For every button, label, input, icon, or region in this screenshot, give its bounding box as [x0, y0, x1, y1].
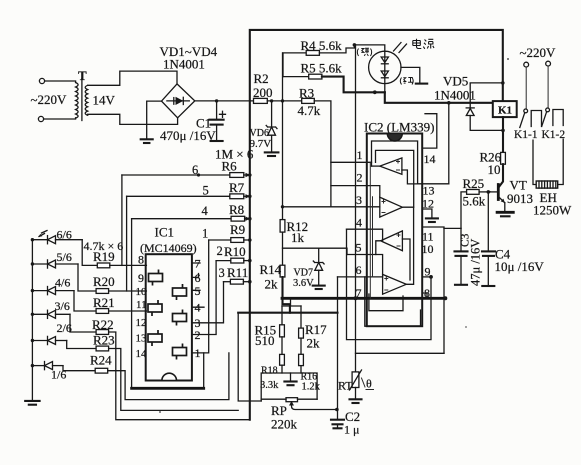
wire comparator3 base feedback	[402, 239, 410, 280]
wire bottom terminal to transformer primary	[44, 118, 76, 119]
svg-text:5: 5	[203, 184, 209, 198]
resistor R24	[95, 368, 108, 373]
wire 5/6 to R20	[78, 264, 96, 291]
wire C2 column from pin6	[337, 277, 339, 419]
svg-text:R11: R11	[227, 265, 248, 280]
wire 3/6 to R22	[70, 314, 96, 332]
wire R26 to VT collector	[499, 164, 503, 187]
potentiometer RP 220k	[286, 398, 298, 402]
resistor R3	[302, 98, 315, 103]
svg-text:2: 2	[357, 171, 363, 185]
svg-text:5/6: 5/6	[57, 250, 72, 264]
resistor R22	[96, 330, 109, 335]
transformer T core	[81, 79, 83, 121]
comparator U2B (points right)	[380, 197, 403, 217]
diode level 2/6	[31, 339, 34, 342]
svg-text:3.6V: 3.6V	[293, 278, 314, 289]
label power (dianyuan)	[413, 39, 434, 49]
wire 1/6 to R24	[63, 366, 95, 371]
LED inner symbols	[384, 51, 386, 92]
resistor R17 2k (vertical)	[300, 306, 302, 328]
wire pin12 ground	[422, 209, 432, 218]
svg-text:R6: R6	[222, 159, 238, 174]
svg-text:3: 3	[356, 193, 362, 207]
svg-text:4/6: 4/6	[55, 276, 70, 290]
wire R23 wrap loop	[109, 349, 239, 411]
svg-text:5: 5	[195, 284, 201, 298]
wire 2/6 to R23	[67, 341, 96, 349]
wire K1 to R26	[502, 117, 504, 152]
wire 6/6 to R19	[82, 240, 97, 266]
svg-text:K1-2: K1-2	[542, 129, 566, 141]
svg-text:R18: R18	[261, 366, 278, 377]
resistor R18 3.3k (vertical)	[281, 337, 283, 355]
svg-text:R10: R10	[224, 244, 246, 259]
wire R12 column	[282, 53, 284, 220]
node mains terminal right	[546, 61, 551, 66]
svg-text:2k: 2k	[265, 277, 279, 292]
wire big supply box top and sides	[250, 30, 503, 420]
wire R5 branch	[283, 76, 309, 78]
wire y313 horizontal	[238, 312, 337, 314]
resistor R20	[96, 289, 109, 294]
node junction pin7 RT	[354, 296, 358, 300]
diode level 5/6	[31, 262, 34, 265]
svg-text:2: 2	[195, 328, 201, 342]
node mains terminal left	[524, 62, 529, 67]
svg-text:R21: R21	[93, 295, 115, 310]
svg-text:3: 3	[219, 266, 225, 280]
wire row 4 with resistor R8	[132, 218, 232, 220]
node junction VD6	[270, 99, 273, 102]
ground at bridge	[141, 138, 153, 140]
wire secondary bottom to bridge	[88, 114, 178, 124]
svg-text:R7: R7	[229, 180, 245, 195]
ground at VT emitter	[497, 211, 513, 214]
op-amp IC2 LM339 box	[367, 134, 422, 327]
wire loop bottom outer	[356, 352, 445, 354]
wire R25 to VT base	[479, 191, 490, 193]
resistor R15 510 (vertical)	[281, 306, 283, 325]
wire top terminal to transformer primary	[45, 81, 76, 83]
svg-text:R14: R14	[260, 262, 282, 277]
node junction RP wiper C2	[335, 408, 339, 412]
wire R4 branch	[283, 53, 306, 77]
svg-text:14: 14	[424, 152, 436, 166]
wire R12 to VD7 junction	[282, 232, 284, 265]
wire comparator1 output	[372, 165, 380, 167]
resistor R23	[96, 346, 109, 351]
capacitor C1	[216, 101, 218, 119]
svg-text:T: T	[78, 68, 87, 83]
wire vertical from LED junction down to pin7 wire	[355, 45, 357, 298]
resistor R16 1.2k (vertical)	[300, 338, 302, 354]
wire IC2 pin2	[331, 186, 380, 198]
IC1 right pin stubs	[193, 263, 204, 307]
svg-text:10: 10	[136, 286, 148, 298]
svg-text:1: 1	[202, 227, 208, 241]
resistor R2	[254, 98, 268, 103]
wire VD7 branch	[283, 248, 348, 254]
capacitor C4 10u/16V	[487, 192, 489, 251]
svg-text:14: 14	[136, 348, 148, 360]
svg-text:11: 11	[136, 299, 147, 311]
svg-text:R19: R19	[93, 249, 115, 264]
resistor R12 1k (vertical)	[280, 220, 285, 233]
switch K1-2	[546, 108, 550, 112]
svg-text:R4 5.6k: R4 5.6k	[301, 38, 343, 53]
wire comparator3 output	[376, 241, 381, 255]
svg-text:6/6: 6/6	[57, 228, 72, 242]
svg-text:R9: R9	[230, 222, 245, 237]
resistor R4 5.6k	[306, 51, 319, 56]
svg-text:220k: 220k	[271, 417, 298, 432]
svg-text:13: 13	[136, 333, 148, 345]
bridge inner diode	[167, 100, 189, 102]
wire R3 right corner down	[314, 101, 331, 207]
wire pin9 stub	[422, 276, 431, 278]
node ~220V input terminal bottom	[38, 116, 43, 121]
wire 313 column down to RP	[238, 313, 261, 401]
wire LED right side	[401, 67, 420, 83]
wire IC2 top-right hook	[422, 114, 437, 148]
wire R10 drop to IC1 pin2	[193, 261, 217, 335]
IC1 MC14069 box	[146, 254, 192, 380]
svg-text:2/6: 2/6	[57, 321, 72, 335]
resistor R25 5.6k	[461, 192, 467, 229]
wire K1-2 to EH	[558, 139, 564, 184]
svg-text:R23: R23	[93, 333, 115, 348]
svg-text:5.6k: 5.6k	[463, 194, 486, 209]
svg-text:θ: θ	[366, 377, 372, 391]
node junction VD5 bottom	[501, 129, 505, 133]
wire IC2 inner left rail	[369, 162, 371, 298]
wire comparator2 output down	[402, 207, 413, 284]
svg-text:~220V: ~220V	[520, 45, 557, 60]
svg-text:IC2 (LM339): IC2 (LM339)	[364, 120, 434, 135]
comparator U2C (points left)	[381, 231, 403, 251]
svg-text:1k: 1k	[291, 230, 305, 245]
label power (dianyuan) rays	[394, 43, 407, 53]
diode level 3/6	[31, 313, 34, 316]
svg-text:6: 6	[356, 263, 362, 277]
wire R24 wrap loop	[108, 353, 229, 400]
svg-text:6: 6	[192, 163, 198, 177]
svg-text:R25: R25	[463, 176, 485, 191]
wire secondary top to bridge	[88, 71, 177, 85]
diode level 6/6	[31, 238, 34, 241]
ground between R18 R16	[290, 373, 292, 381]
comparator U2D (points right)	[383, 274, 407, 294]
wire IC2 pin6	[338, 276, 383, 278]
svg-text:R5 5.6k: R5 5.6k	[301, 61, 343, 76]
wire loop pin4 around bottom	[347, 229, 432, 339]
wire comparator4 under-loop	[369, 294, 403, 311]
wire IC2 pin4	[347, 229, 383, 241]
node junction C4 column	[487, 190, 491, 194]
svg-text:R22: R22	[92, 317, 114, 332]
svg-text:47μ /16V: 47μ /16V	[469, 239, 483, 286]
wire R5 to LED bottom	[322, 77, 385, 93]
bridge rectifier VD1~VD4 diamond	[162, 84, 195, 118]
svg-text:R2: R2	[254, 71, 269, 86]
wire row 1 with resistor R9	[209, 239, 231, 241]
svg-text:VD7: VD7	[294, 268, 313, 279]
transformer T secondary winding	[85, 85, 88, 115]
transformer T primary winding	[76, 83, 79, 119]
svg-text:9013: 9013	[507, 191, 533, 206]
svg-text:10μ /16V: 10μ /16V	[495, 259, 545, 274]
transistor VT 9013	[497, 185, 500, 200]
label (green)	[357, 48, 371, 56]
svg-text:1: 1	[195, 346, 201, 360]
wire bridge right vertex main rail	[195, 100, 254, 102]
zener VD6 9.7V	[271, 101, 273, 127]
node junction pin7 right	[443, 296, 447, 300]
wire row 2 with resistor R10	[216, 260, 231, 262]
svg-text:10: 10	[488, 162, 501, 177]
comparator U2A (points left)	[380, 158, 402, 174]
ground at LED column	[25, 400, 39, 402]
svg-text:1 μ: 1 μ	[344, 423, 359, 437]
svg-text:14V: 14V	[93, 93, 116, 108]
wire R15 R17 top tie	[282, 298, 301, 306]
zener VD7 3.6V	[318, 248, 320, 262]
diode level 4/6	[31, 289, 34, 292]
wire pin13 stub	[418, 183, 449, 185]
wire R2 to R3	[267, 100, 301, 102]
wire pin11 to R25 column	[422, 227, 444, 353]
wire IC2 pin7 main horizontal	[282, 297, 445, 300]
svg-text:4: 4	[202, 204, 209, 218]
capacitor C2 1u	[331, 419, 344, 421]
svg-text:K1: K1	[498, 105, 512, 117]
wire R11 drop to IC1 pin3	[193, 282, 224, 323]
svg-text:1/6: 1/6	[51, 368, 66, 382]
wire R18 R16 bottoms tie	[261, 365, 317, 401]
svg-text:1.2k: 1.2k	[302, 382, 321, 393]
svg-text:1: 1	[357, 148, 363, 162]
svg-text:5: 5	[356, 241, 362, 255]
wire row 5 with resistor R7	[127, 195, 230, 197]
svg-text:1250W: 1250W	[533, 203, 572, 218]
node junction pin9	[429, 275, 433, 279]
svg-text:2k: 2k	[307, 336, 321, 351]
svg-text:(MC14069): (MC14069)	[140, 241, 197, 255]
label (red)	[400, 78, 413, 85]
svg-text:4: 4	[356, 216, 362, 230]
svg-text:R20: R20	[93, 274, 115, 289]
wire LED bottom to K1	[385, 92, 493, 103]
node junction R5 LED	[373, 90, 377, 94]
svg-text:3/6: 3/6	[55, 299, 70, 313]
svg-text:R3: R3	[299, 86, 314, 101]
svg-text:VD5: VD5	[443, 74, 468, 89]
svg-text:13: 13	[423, 184, 435, 198]
wire wrap column W5	[126, 196, 128, 291]
diode level 1/6	[31, 364, 34, 367]
thermistor RT	[355, 298, 357, 372]
wire 4/6 to R21	[74, 291, 96, 311]
svg-text:3.3k: 3.3k	[260, 380, 279, 391]
svg-text:1N4001: 1N4001	[163, 57, 205, 72]
svg-text:12: 12	[136, 317, 147, 329]
svg-text:R24: R24	[90, 353, 112, 368]
ground at IC2 pin12	[426, 217, 438, 219]
svg-text:9: 9	[138, 271, 144, 285]
svg-text:200: 200	[253, 85, 273, 100]
svg-text:510: 510	[255, 333, 275, 348]
wire R22 wrap loop	[109, 332, 250, 420]
wire bridge left vertex to ground	[147, 101, 162, 139]
heater EH 1250W	[536, 181, 558, 188]
wire R9 drop to IC1 pin1	[193, 240, 209, 353]
wire IC2 interior loop over top	[372, 141, 418, 184]
node junction VD5 top	[501, 81, 505, 85]
svg-text:8: 8	[138, 253, 144, 267]
wire IC2 pin1	[331, 161, 372, 163]
svg-text:IC1: IC1	[155, 225, 175, 240]
wire mains drops	[525, 67, 527, 109]
resistor R21	[96, 309, 109, 314]
node ~220V input terminal top	[39, 78, 44, 83]
wire jog to C3 column	[444, 227, 461, 229]
node junction R4 LED	[353, 43, 357, 47]
svg-text:470μ /16V: 470μ /16V	[160, 128, 216, 143]
wire R14 elbow to wire313	[283, 277, 290, 313]
wire wrap column W6	[121, 175, 123, 265]
wire loop pin5 around bottom	[365, 277, 421, 326]
svg-text:4.7k: 4.7k	[298, 103, 321, 118]
node junction pin3 branch	[281, 205, 284, 208]
inverter glyphs inside IC1	[148, 270, 187, 360]
ground at C1	[211, 140, 223, 142]
resistor R14 2k (vertical)	[280, 265, 285, 277]
node junction R12 column	[281, 99, 284, 102]
svg-text:R8: R8	[229, 202, 244, 217]
wire wrap column W4 with bottom	[131, 219, 133, 389]
wire pin8 stub	[422, 293, 427, 298]
capacitor C3 47u/16V	[460, 228, 462, 251]
svg-text:K1-1: K1-1	[514, 129, 538, 141]
relay K1	[493, 101, 517, 117]
resistor R19	[97, 263, 110, 268]
node junction K1 wire	[447, 101, 451, 105]
switch K1-1	[524, 109, 528, 113]
stray scan dots	[507, 58, 509, 60]
wire IC2 pin5	[347, 255, 383, 275]
wire row 6 with resistor R6	[122, 174, 230, 176]
svg-text:~220V: ~220V	[31, 92, 68, 107]
wire K1-1 to EH	[533, 140, 536, 184]
resistor R5 5.6k	[309, 74, 322, 79]
wire IC2 pin3	[283, 206, 380, 208]
svg-text:RT: RT	[338, 379, 353, 393]
LED ray arrows at 6/6	[39, 231, 47, 237]
resistor R26 (vertical)	[501, 152, 506, 164]
svg-text:2: 2	[217, 244, 223, 258]
LED level column common wire	[31, 240, 33, 401]
wire row 3 with resistor R11	[224, 281, 231, 283]
wire R4 to LED junction	[319, 45, 384, 53]
node junction C1	[215, 99, 218, 102]
svg-text:10: 10	[422, 242, 434, 256]
LED power indicator circle	[369, 51, 401, 83]
